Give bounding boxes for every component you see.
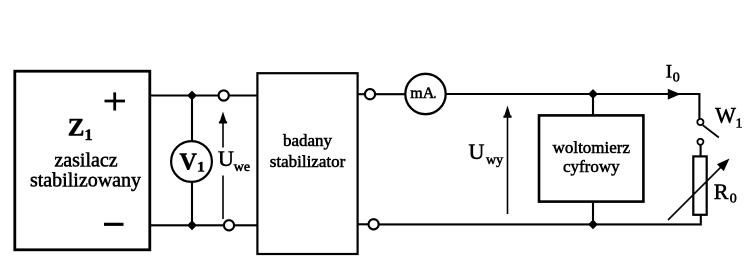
arrow Uwy [503,106,511,215]
wire stabilizer bottom stub [358,223,369,225]
svg-text:V: V [180,149,198,175]
svg-text:W: W [715,103,736,128]
wire junction to voltmeter top [191,96,193,142]
svg-text:0: 0 [730,192,737,207]
label R0 [714,179,737,207]
svg-text:stabilizator: stabilizator [270,152,346,171]
label Uwy [469,139,504,168]
terminal output top [365,89,375,99]
label Z1 [68,115,93,145]
voltmeter V1 [171,141,212,182]
wire voltmeter box bottom to junction [592,202,594,225]
svg-text:1: 1 [736,116,743,131]
arrow Uwe [216,112,253,220]
wire junction to voltmeter box top [592,94,594,116]
wire terminal to ammeter [375,93,406,95]
wire voltmeter bottom to junction [191,182,193,226]
svg-text:mA: mA [410,85,434,102]
node junction top-left [187,91,197,101]
label minus [104,223,124,226]
box woltomierz cyfrowy [539,115,643,201]
terminal input bottom [224,220,234,230]
terminal output bottom [369,219,379,229]
wire bottom-right rail to resistor [379,215,701,224]
svg-text:0: 0 [673,71,680,86]
svg-text:U: U [469,139,485,164]
label I0 [666,62,680,86]
box badany stabilizator [257,73,357,254]
arrow I0 on wire [668,89,681,100]
node junction bottom-right [588,220,598,230]
resistor R0 [693,156,706,214]
svg-text:badany: badany [283,131,333,150]
svg-text:zasilacz: zasilacz [54,149,117,171]
svg-text:Z: Z [68,115,85,142]
node junction top-right [588,89,598,99]
node junction bottom-left [187,220,197,230]
svg-text:1: 1 [197,160,205,176]
svg-text:we: we [234,160,250,175]
arrow variable resistor [668,159,730,221]
svg-text:1: 1 [85,127,93,144]
wire bottom terminal to stabilizer [234,224,258,226]
svg-text:wy: wy [486,153,503,168]
wire terminal to stabilizer input [229,94,258,96]
label plus [105,92,126,110]
wire switch to resistor [700,145,702,157]
ammeter mA [405,74,445,114]
svg-text:cyfrowy: cyfrowy [563,157,620,176]
svg-text:U: U [218,146,234,171]
svg-text:stabilizowany: stabilizowany [30,170,141,192]
terminal input top [219,90,229,100]
svg-text:woltomierz: woltomierz [553,138,631,157]
box Z1 zasilacz stabilizowany [15,71,150,250]
wire bottom-left rail [150,224,224,226]
wire ammeter to switch corner [446,94,700,119]
svg-text:R: R [714,179,729,204]
wire stabilizer output stub [358,93,366,95]
label W1 [715,103,742,132]
switch W1 [697,119,718,145]
label Uwe [218,146,250,175]
wire top-left rail [150,94,219,96]
svg-text:I: I [666,62,672,83]
